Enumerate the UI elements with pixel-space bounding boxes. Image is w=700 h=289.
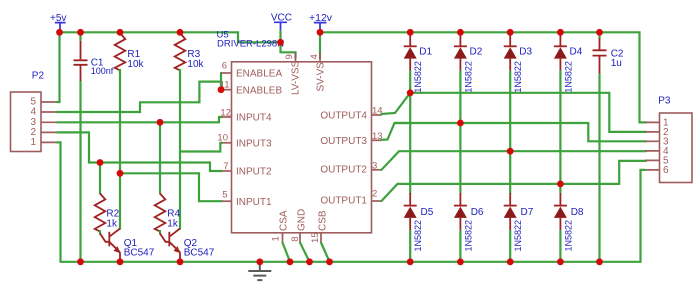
resistor R4 bbox=[155, 122, 181, 231]
wire +12v to pin4 SV-VS bbox=[319, 32, 321, 58]
svg-text:INPUT2: INPUT2 bbox=[236, 167, 272, 178]
junction +12v rail / C2 bbox=[596, 29, 603, 36]
junction VCC node bbox=[277, 39, 284, 46]
U5 pin 3 OUTPUT2 bbox=[320, 160, 381, 175]
junction +5v rail / P2 pin5 bbox=[56, 29, 63, 36]
junction ENABLEB node bbox=[218, 86, 225, 93]
wire R3 to Q2 collector bbox=[179, 70, 181, 229]
wire +5v rail bbox=[60, 32, 281, 42]
transistor Q1 bbox=[100, 229, 155, 262]
svg-text:BC547: BC547 bbox=[124, 247, 155, 258]
junction ground rail / C2 bbox=[596, 258, 603, 265]
svg-text:1N5822: 1N5822 bbox=[563, 220, 573, 252]
svg-text:1N5822: 1N5822 bbox=[463, 61, 473, 93]
svg-text:INPUT3: INPUT3 bbox=[236, 139, 272, 150]
diode D1 bbox=[404, 34, 433, 93]
svg-text:D4: D4 bbox=[570, 47, 583, 58]
svg-text:BC547: BC547 bbox=[184, 247, 215, 258]
connector P2 bbox=[11, 70, 58, 151]
diode D7 bbox=[504, 193, 534, 252]
svg-text:D3: D3 bbox=[519, 47, 532, 58]
U5 pin 7 INPUT2 bbox=[222, 161, 272, 178]
svg-text:5: 5 bbox=[222, 189, 227, 200]
junction +12v rail / D4 bbox=[557, 29, 564, 36]
U5 pin 11 ENABLEB bbox=[220, 80, 283, 97]
junction ground rail / C1 bbox=[77, 258, 84, 265]
svg-text:1N5822: 1N5822 bbox=[413, 220, 423, 252]
svg-text:D7: D7 bbox=[521, 207, 534, 218]
wire OUTPUT4 to D1 node bbox=[382, 93, 411, 114]
resistor R2 bbox=[95, 163, 120, 232]
svg-text:1: 1 bbox=[30, 137, 36, 148]
diode D3 bbox=[504, 34, 533, 93]
junction ground rail / GND pin bbox=[306, 258, 313, 265]
wire P3 pin6 to ground rail bbox=[641, 170, 646, 262]
svg-text:10k: 10k bbox=[187, 59, 204, 70]
wire D4 to node and down to D8 bbox=[559, 71, 561, 193]
U5 pin 2 OUTPUT1 bbox=[320, 189, 381, 207]
U5 pin 9 LV-VSS bbox=[284, 52, 302, 95]
svg-text:1N5822: 1N5822 bbox=[563, 61, 573, 93]
wire D8 to ground rail bbox=[559, 231, 561, 262]
U5 pin 4 SV-VS bbox=[309, 52, 327, 91]
wire D1 to node bbox=[409, 71, 411, 93]
svg-text:10k: 10k bbox=[127, 59, 144, 70]
diode D2 bbox=[454, 34, 483, 93]
wire R1 to Q1 collector bbox=[119, 70, 121, 229]
svg-text:OUTPUT3: OUTPUT3 bbox=[320, 136, 367, 147]
svg-text:GND: GND bbox=[297, 209, 308, 231]
diode D4 bbox=[554, 34, 583, 93]
junction P2 pin2 / R2 bbox=[97, 159, 104, 166]
wire R3 to INPUT3 bbox=[180, 143, 222, 152]
power +12v symbol bbox=[309, 12, 333, 32]
junction ground rail / Q1 emitter bbox=[117, 258, 124, 265]
svg-text:2: 2 bbox=[372, 189, 377, 200]
wire +12v rail bbox=[320, 32, 646, 122]
svg-text:DRIVER-L298N: DRIVER-L298N bbox=[217, 39, 284, 50]
junction +12v rail / D1 bbox=[407, 29, 414, 36]
junction ground rail / D7 bbox=[507, 258, 514, 265]
svg-text:D5: D5 bbox=[421, 207, 434, 218]
wire CSA to ground rail bbox=[283, 243, 291, 262]
svg-text:ENABLEB: ENABLEB bbox=[236, 85, 282, 96]
ground symbol bbox=[248, 262, 271, 280]
svg-text:D1: D1 bbox=[419, 47, 432, 58]
wire C1 to ground rail bbox=[79, 82, 81, 262]
wire GND pin to ground rail bbox=[300, 243, 310, 262]
wire D2 to node and down to D6 bbox=[459, 71, 461, 193]
junction +12v rail / D3 bbox=[507, 29, 514, 36]
capacitor C2 bbox=[593, 32, 624, 74]
U5 pin 12 INPUT4 bbox=[220, 108, 272, 124]
wire D2 node to P3 pin3 bbox=[395, 123, 647, 141]
junction ground rail / D6 bbox=[457, 258, 464, 265]
junction OUTPUT2 / D3 / D7 bbox=[507, 148, 514, 155]
wire R4 to Q2 base bbox=[159, 231, 161, 234]
svg-text:7: 7 bbox=[223, 161, 228, 172]
svg-text:10: 10 bbox=[217, 133, 228, 144]
wire P2 pin1 to ground rail bbox=[57, 142, 61, 261]
svg-text:P3: P3 bbox=[658, 95, 671, 106]
resistor R1 bbox=[115, 33, 145, 70]
svg-text:1N5822: 1N5822 bbox=[513, 61, 523, 93]
U5 pin 14 OUTPUT4 bbox=[320, 106, 382, 122]
power +5v symbol bbox=[50, 13, 66, 32]
junction OUTPUT1 / D4 / D8 bbox=[557, 181, 564, 188]
U5 pin 13 OUTPUT3 bbox=[320, 131, 382, 147]
wire P2 pin5 to +5v bbox=[57, 32, 60, 102]
svg-text:OUTPUT2: OUTPUT2 bbox=[320, 164, 367, 175]
resistor R3 bbox=[175, 33, 205, 70]
wire D1 node to P3 pin2 bbox=[410, 93, 646, 132]
svg-text:OUTPUT1: OUTPUT1 bbox=[320, 195, 367, 206]
svg-text:3: 3 bbox=[372, 160, 377, 171]
svg-text:CSB: CSB bbox=[318, 210, 329, 231]
svg-text:12: 12 bbox=[220, 108, 231, 119]
junction +5v rail / C1 bbox=[77, 29, 84, 36]
wire R1 Q1 collector to INPUT1 bbox=[120, 173, 222, 201]
junction ground rail / D8 bbox=[557, 258, 564, 265]
svg-text:P2: P2 bbox=[32, 70, 45, 81]
svg-text:INPUT1: INPUT1 bbox=[236, 197, 272, 208]
junction ground rail / CSB bbox=[326, 258, 333, 265]
capacitor C1 bbox=[74, 32, 114, 82]
op-amp U5 IC L298N box bbox=[217, 30, 372, 233]
svg-text:D8: D8 bbox=[571, 207, 584, 218]
svg-text:9: 9 bbox=[284, 54, 295, 59]
svg-text:1k: 1k bbox=[106, 218, 118, 229]
svg-text:LV-VSS: LV-VSS bbox=[291, 60, 302, 95]
connector P3 bbox=[645, 95, 692, 182]
junction +5v rail / R3 bbox=[177, 29, 184, 36]
svg-text:8: 8 bbox=[290, 237, 301, 242]
svg-text:1N5822: 1N5822 bbox=[513, 220, 523, 252]
U5 pin 8 GND bbox=[290, 209, 308, 243]
svg-text:6: 6 bbox=[663, 165, 669, 176]
junction +12v rail / D2 bbox=[457, 29, 464, 36]
U5 pin 15 CSB bbox=[310, 210, 329, 243]
svg-text:OUTPUT4: OUTPUT4 bbox=[320, 111, 367, 122]
wire CSB to ground rail bbox=[321, 243, 330, 262]
wire D5 to ground rail bbox=[409, 231, 411, 262]
diode D8 bbox=[554, 193, 584, 252]
svg-text:1N5822: 1N5822 bbox=[413, 61, 423, 93]
junction ground rail / ground symbol bbox=[256, 258, 263, 265]
junction ground rail / Q2 emitter bbox=[177, 258, 184, 265]
svg-text:1k: 1k bbox=[167, 218, 179, 229]
U5 pin 1 CSA bbox=[270, 210, 289, 242]
wire P2 pin2 to INPUT2 bbox=[57, 132, 222, 171]
junction OUTPUT4 / D1 / D5 bbox=[407, 89, 414, 96]
junction +12v rail / SV-VS bbox=[317, 29, 324, 36]
svg-text:D6: D6 bbox=[471, 207, 484, 218]
svg-text:1: 1 bbox=[270, 236, 281, 241]
U5 pin 5 INPUT1 bbox=[222, 189, 272, 208]
power VCC symbol bbox=[271, 13, 292, 43]
wire OUTPUT3 to D2 node bbox=[382, 123, 411, 140]
wire C2 to ground rail bbox=[598, 75, 600, 262]
junction P2 pin3 / R4 bbox=[157, 119, 164, 126]
svg-text:100nf: 100nf bbox=[91, 66, 114, 76]
svg-text:1N5822: 1N5822 bbox=[463, 220, 473, 252]
junction ground rail / D5 bbox=[407, 258, 414, 265]
junction OUTPUT3 / D2 / D6 bbox=[457, 120, 464, 127]
wire P2 pin3 to INPUT4 bbox=[57, 117, 222, 122]
wire P2 pin4 to ENABLE bbox=[57, 82, 221, 112]
transistor Q2 bbox=[160, 229, 215, 262]
wire OUTPUT2 to D3 node and P3 pin4 bbox=[382, 151, 647, 170]
diode D5 bbox=[404, 193, 434, 252]
wire D7 to ground rail bbox=[509, 231, 511, 262]
svg-text:SV-VS: SV-VS bbox=[316, 62, 327, 92]
svg-text:CSA: CSA bbox=[279, 210, 290, 231]
svg-text:INPUT4: INPUT4 bbox=[236, 113, 272, 124]
svg-text:D2: D2 bbox=[470, 47, 483, 58]
diode D6 bbox=[454, 193, 484, 252]
wire R2 to Q1 base bbox=[99, 231, 101, 234]
svg-text:15: 15 bbox=[310, 232, 321, 243]
U5 pin 6 ENABLEA bbox=[221, 61, 282, 80]
junction +5v rail / R1 bbox=[117, 29, 124, 36]
wire OUTPUT1 to D4 node bbox=[382, 161, 647, 201]
wire ENABLEA to ENABLEB bbox=[220, 73, 222, 90]
U5 pin 10 INPUT3 bbox=[217, 133, 272, 150]
wire D1 node down to D5 bbox=[409, 93, 411, 193]
svg-text:4: 4 bbox=[309, 54, 320, 59]
wire D3 to node and down to D7 bbox=[509, 71, 511, 193]
wire VCC to pin9 LV-VSS bbox=[281, 42, 296, 58]
junction R1 / Q1 collector / INPUT1 bbox=[117, 170, 124, 177]
svg-text:1u: 1u bbox=[611, 58, 622, 69]
svg-text:ENABLEA: ENABLEA bbox=[236, 69, 282, 80]
svg-text:6: 6 bbox=[222, 61, 227, 72]
wire ground rail bbox=[61, 261, 641, 263]
wire D6 to ground rail bbox=[459, 231, 461, 262]
junction ground rail / CSA bbox=[287, 258, 294, 265]
